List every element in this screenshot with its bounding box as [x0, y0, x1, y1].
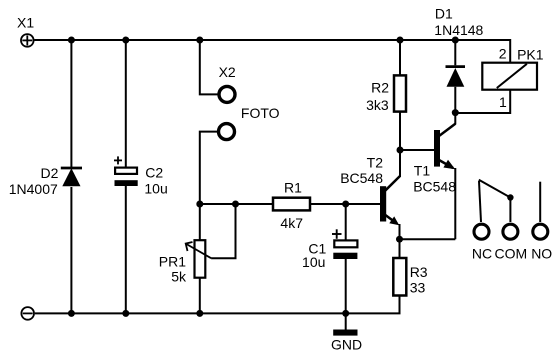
transistor T2 BC548 — [340, 150, 400, 239]
diode D1 1N4148 — [434, 6, 483, 113]
svg-text:T2: T2 — [367, 155, 384, 171]
capacitor C2 10u — [114, 40, 168, 313]
node emitter / R3 — [396, 236, 403, 243]
node PR1 top — [196, 201, 203, 208]
resistor R3 33 — [393, 239, 428, 313]
svg-text:T1: T1 — [414, 162, 431, 178]
wire top rail — [34, 39, 510, 41]
node top rail / D2 — [68, 37, 75, 44]
wire base net (R1 row) — [200, 203, 380, 205]
node top rail / D1 — [452, 37, 459, 44]
svg-text:BC548: BC548 — [340, 170, 383, 186]
svg-text:10u: 10u — [144, 181, 167, 197]
node top rail / C2 — [122, 37, 129, 44]
diode D2 1N4007 — [9, 165, 82, 197]
resistor R2 3k3 — [366, 40, 406, 150]
relay contact NC — [472, 181, 492, 262]
node bottom / PR1 — [196, 310, 203, 317]
svg-text:33: 33 — [410, 280, 426, 296]
svg-text:GND: GND — [331, 337, 362, 353]
wire bottom rail — [35, 312, 401, 314]
svg-text:5k: 5k — [171, 269, 187, 285]
svg-text:BC548: BC548 — [413, 179, 456, 195]
node top rail / R2 — [397, 37, 404, 44]
node top rail / X2 — [196, 37, 203, 44]
relay coil PK1 — [455, 39, 543, 113]
node D1 / relay pin1 / T1 collector — [452, 109, 459, 116]
svg-text:R1: R1 — [284, 180, 302, 196]
svg-text:1: 1 — [499, 94, 507, 110]
svg-text:1N4148: 1N4148 — [434, 22, 483, 38]
svg-text:NC: NC — [472, 246, 492, 262]
relay contact NO — [531, 182, 552, 262]
svg-text:PK1: PK1 — [517, 46, 544, 62]
svg-text:1N4007: 1N4007 — [9, 181, 58, 197]
terminal X2 / FOTO — [200, 40, 280, 204]
svg-text:2: 2 — [499, 46, 507, 62]
node bottom / GND — [342, 310, 349, 317]
svg-text:FOTO: FOTO — [241, 105, 280, 121]
relay contact lever — [479, 180, 514, 201]
svg-text:COM: COM — [494, 246, 527, 262]
node wiper junction — [232, 201, 239, 208]
svg-text:3k3: 3k3 — [366, 97, 389, 113]
wire D2 branch — [70, 40, 72, 313]
node C1 / T2 base — [342, 201, 349, 208]
terminal X1 — [17, 15, 34, 47]
svg-text:10u: 10u — [302, 254, 325, 270]
relay contact COM — [494, 198, 527, 262]
transistor T1 BC548 — [400, 113, 456, 240]
wire T1 emitter to R3 — [400, 238, 456, 240]
svg-text:D2: D2 — [40, 165, 58, 181]
svg-text:C2: C2 — [145, 165, 163, 181]
svg-text:R2: R2 — [371, 80, 389, 96]
ground — [331, 313, 362, 352]
svg-text:NO: NO — [531, 246, 552, 262]
potentiometer PR1 5k — [159, 204, 236, 313]
capacitor C1 10u — [302, 204, 357, 313]
node bottom / C2 — [122, 310, 129, 317]
svg-text:X1: X1 — [17, 15, 34, 31]
svg-text:4k7: 4k7 — [280, 215, 303, 231]
svg-text:PR1: PR1 — [159, 254, 186, 270]
node bottom / D2 — [68, 310, 75, 317]
svg-text:D1: D1 — [435, 6, 453, 22]
resistor R1 4k7 — [273, 180, 310, 232]
node R2 / T1 base — [397, 147, 404, 154]
terminal minus — [21, 307, 34, 320]
svg-text:R3: R3 — [410, 264, 428, 280]
svg-text:X2: X2 — [219, 64, 236, 80]
